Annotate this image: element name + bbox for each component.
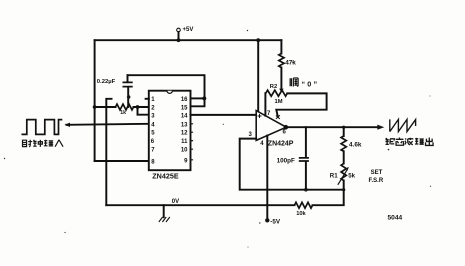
wire pot R2 left leg to op-amp top edge xyxy=(264,93,266,116)
wire pin16 stub xyxy=(191,97,205,99)
wire to pin 3 xyxy=(138,107,149,115)
svg-text:14: 14 xyxy=(181,114,188,120)
clock input waveform xyxy=(22,120,63,135)
node output/4.6k junction xyxy=(342,126,345,129)
svg-text:11: 11 xyxy=(181,139,188,145)
wire inverting input feedback loop xyxy=(240,139,344,190)
wire cap to pins 15/16 xyxy=(128,75,205,106)
svg-text:13: 13 xyxy=(181,122,188,128)
svg-text:F.S.R: F.S.R xyxy=(369,178,384,184)
svg-text:“0”: “0” xyxy=(302,80,320,89)
wire ground column x106 (pin1 to 0V rail) xyxy=(106,99,111,205)
wire pin 14 to op-amp + input xyxy=(191,114,256,116)
IC U1 ZN425E xyxy=(146,91,194,181)
right pin numbers xyxy=(181,97,188,164)
svg-text:10k: 10k xyxy=(296,211,306,217)
right short stubs pins 13-9 xyxy=(191,124,194,160)
label adjust zero (Chinese) xyxy=(290,78,319,89)
op-amp U2 ZN424P xyxy=(249,111,294,148)
resistor R3 47k from +5V rail xyxy=(280,40,282,53)
wire 0V rail xyxy=(106,190,343,206)
svg-text:+5V: +5V xyxy=(183,27,194,33)
svg-text:0.22µF: 0.22µF xyxy=(97,79,116,85)
svg-text:0V: 0V xyxy=(172,199,179,205)
resistor 4.6k xyxy=(343,127,345,136)
resistor 1k from +5V rail xyxy=(93,105,97,109)
svg-text:4.6k: 4.6k xyxy=(349,141,362,148)
svg-text:R2: R2 xyxy=(270,84,277,90)
capacitor C2 100pF xyxy=(277,127,309,190)
arrowhead output xyxy=(377,125,384,130)
ground xyxy=(159,205,170,222)
left pin numbers xyxy=(151,97,156,165)
capacitor C1 0.22uF xyxy=(97,75,133,107)
offset pin tick xyxy=(276,115,280,119)
svg-text:16: 16 xyxy=(181,97,188,103)
arrowhead clock line xyxy=(64,123,70,127)
svg-text:SET: SET xyxy=(371,170,383,176)
potentiometer R1 5k xyxy=(341,164,346,181)
potentiometer R2 1M xyxy=(266,90,288,96)
wire output line xyxy=(286,126,378,128)
wire left rail from +5V down to pin 8 xyxy=(94,40,96,161)
resistor 10k (in 0V line) xyxy=(295,202,313,208)
svg-text:1k: 1k xyxy=(120,110,126,116)
wire clock to pin 4 xyxy=(67,124,149,125)
+5V terminal xyxy=(177,27,194,42)
svg-text:1M: 1M xyxy=(275,99,283,105)
svg-text:-5V: -5V xyxy=(270,218,281,225)
svg-text:5k: 5k xyxy=(348,172,355,179)
svg-text:12: 12 xyxy=(181,131,188,137)
label clock input (Chinese 时钟输入) xyxy=(23,140,64,147)
scan speckles xyxy=(4,30,431,248)
svg-text:100pF: 100pF xyxy=(277,157,295,164)
label sawtooth output (Chinese 锯齿波输出) xyxy=(386,137,434,145)
node junction pins 2-3 xyxy=(136,105,140,109)
svg-text:ZN425E: ZN425E xyxy=(152,172,179,181)
-5V terminal xyxy=(265,218,269,222)
svg-text:15: 15 xyxy=(181,105,188,111)
pin 1 stub xyxy=(146,98,149,100)
node op-amp output xyxy=(284,125,289,130)
svg-text:R1: R1 xyxy=(330,172,338,179)
wire pin 8 to left rail xyxy=(95,160,149,162)
svg-text:47k: 47k xyxy=(285,60,296,67)
node pot bottom junction xyxy=(342,188,345,191)
svg-text:5044: 5044 xyxy=(388,215,403,222)
svg-text:ZN424P: ZN424P xyxy=(268,140,294,147)
sawtooth waveform glyph xyxy=(390,119,416,131)
feedback box wire: pot right to offset pin xyxy=(276,93,326,117)
node cap bottom junction xyxy=(304,188,308,192)
node pin16 junction xyxy=(202,96,206,100)
wire top +5V rail xyxy=(95,39,282,41)
wiper arrowhead onto R2 xyxy=(279,89,283,93)
wire to pin 2 xyxy=(134,106,149,108)
svg-text:10: 10 xyxy=(181,148,188,154)
wire +5V rail down to op-amp V+ xyxy=(256,38,260,42)
wire op-amp V- to -5V xyxy=(266,136,268,220)
wiper arrow R1 xyxy=(338,170,347,185)
